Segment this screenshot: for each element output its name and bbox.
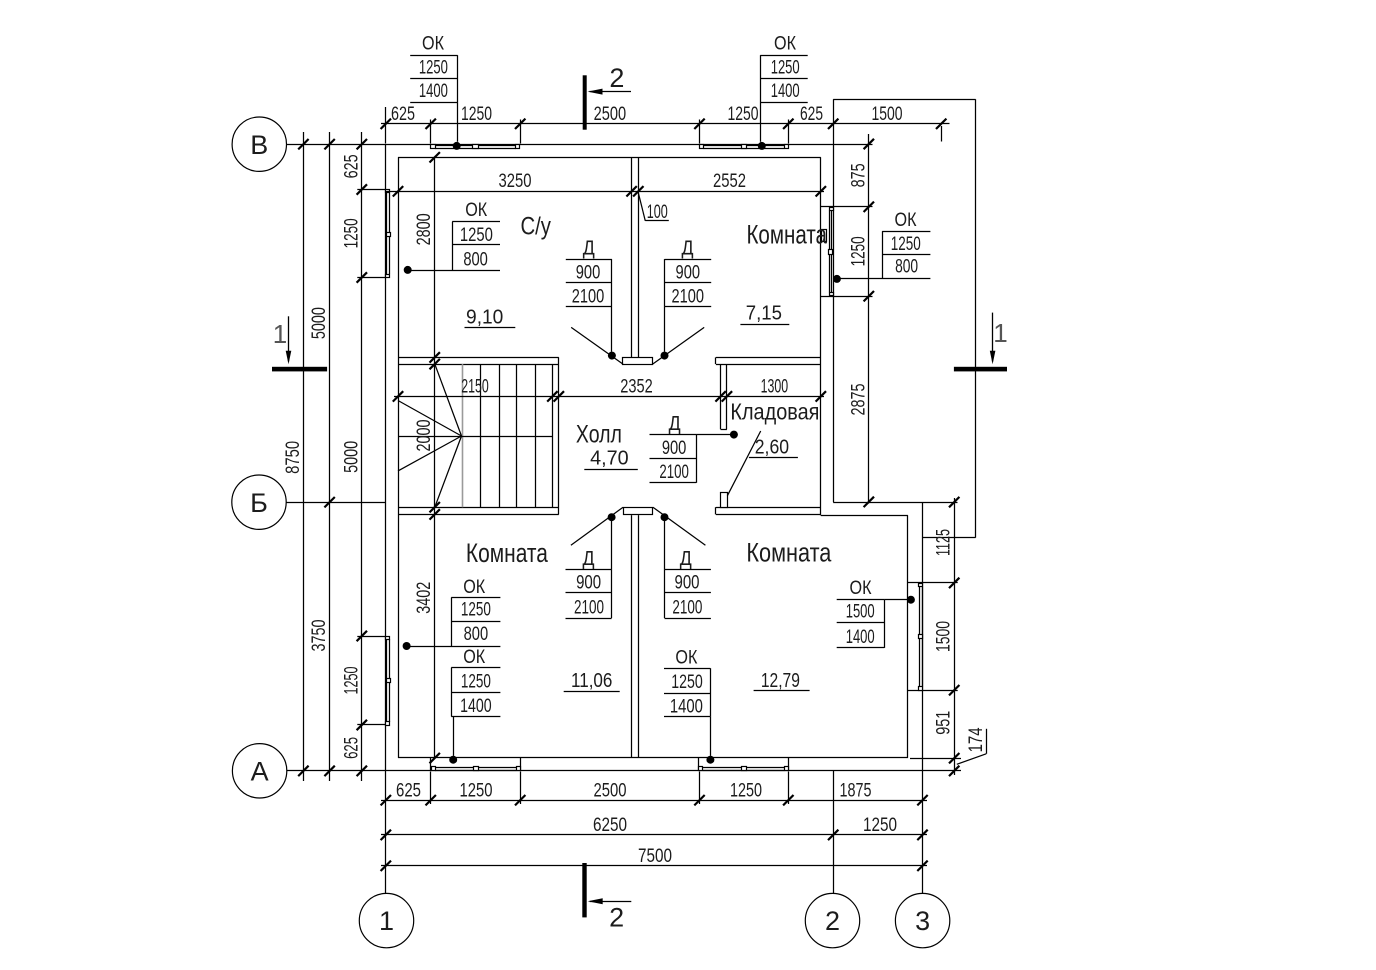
top exterior wall inner face — [398, 157, 821, 159]
right dimension line 1125 1500 951 174 — [954, 498, 956, 775]
window right-lower reference dot — [907, 596, 915, 604]
window table top-left ОК 1250 1400 — [410, 55, 457, 57]
svg-text:3250: 3250 — [499, 171, 532, 192]
stair flight divider horizontal — [398, 436, 552, 438]
svg-text:900: 900 — [662, 438, 687, 459]
left window extension lines — [357, 189, 385, 191]
axis circle 3 — [895, 893, 949, 947]
window table top-right ОК 1250 1400 — [760, 55, 807, 57]
svg-text:9,10: 9,10 — [466, 306, 503, 329]
door hinge dots top — [608, 352, 616, 360]
svg-text:1500: 1500 — [872, 104, 903, 125]
right extension lines lower — [923, 582, 958, 584]
bottom exterior wall outer face — [385, 770, 922, 772]
window bottom-left reference dot — [449, 756, 457, 764]
svg-text:2100: 2100 — [574, 597, 604, 618]
svg-text:1400: 1400 — [771, 81, 800, 102]
svg-text:ОК: ОК — [850, 578, 872, 599]
svg-text:2100: 2100 — [572, 287, 605, 308]
hall south wall band storeroom side — [716, 507, 821, 509]
window bottom-left glazing — [435, 767, 516, 769]
svg-text:2500: 2500 — [594, 780, 627, 801]
section mark 2 bottom arrow — [590, 901, 632, 903]
axis circle 2 — [805, 893, 859, 947]
window top-left jamb blocks — [431, 145, 436, 149]
svg-text:1250: 1250 — [461, 104, 492, 125]
window table right-lower ОК 1500 1400 — [837, 599, 885, 601]
svg-text:ОК: ОК — [422, 33, 444, 54]
svg-text:1: 1 — [273, 319, 287, 349]
window bottom-right mullion — [742, 767, 747, 771]
stair tread lines — [480, 364, 482, 507]
svg-text:1500: 1500 — [846, 602, 875, 623]
door threshold bottom — [624, 508, 653, 515]
svg-text:1250: 1250 — [728, 104, 759, 125]
dimension line top row — [381, 123, 950, 125]
window left-upper jamb blocks — [386, 190, 390, 193]
window right-upper bottom edge — [821, 296, 833, 298]
door threshold top — [623, 358, 653, 365]
svg-text:800: 800 — [463, 249, 488, 270]
window bottom-right jamb verticals — [698, 758, 700, 771]
axis circle В — [232, 117, 286, 171]
hall north wall band storeroom side — [716, 357, 821, 359]
svg-text:5000: 5000 — [341, 441, 362, 473]
terrace outline right — [975, 99, 977, 537]
terrace outline top — [833, 99, 975, 101]
window bottom-right jamb blocks — [699, 767, 703, 771]
bottom exterior wall inner face — [398, 757, 908, 759]
svg-text:1400: 1400 — [460, 696, 492, 717]
window bottom-right glazing — [703, 767, 784, 769]
svg-text:А: А — [251, 756, 269, 786]
window bottom-left jamb blocks — [432, 767, 436, 771]
left exterior wall inner face — [398, 157, 400, 758]
dimension line 2150 2352 1300 — [394, 396, 824, 398]
window top-right glazing — [704, 145, 785, 147]
window table bottom-centre ОК 1250 1400 — [664, 668, 710, 670]
window bottom-left jamb verticals — [430, 758, 432, 771]
interior dimension line 2800 2000 3402 — [434, 157, 436, 758]
svg-text:Д: Д — [669, 413, 681, 435]
svg-text:7500: 7500 — [638, 846, 672, 867]
svg-text:Комната: Комната — [746, 220, 827, 250]
left dimension line segments — [361, 132, 363, 781]
dimension line 3250 2552 — [385, 191, 824, 193]
svg-text:12,79: 12,79 — [761, 669, 800, 692]
svg-text:Б: Б — [250, 488, 268, 518]
door dot storeroom — [730, 431, 738, 439]
svg-text:5000: 5000 — [309, 307, 330, 339]
window left-lower reference dot — [403, 642, 411, 650]
section mark 1 right arrow — [992, 313, 994, 362]
window right-lower bottom edge — [908, 690, 923, 692]
right upper exterior wall inner face — [820, 157, 822, 515]
svg-text:1125: 1125 — [934, 529, 955, 556]
svg-text:1250: 1250 — [341, 218, 362, 248]
step wall inner face — [821, 515, 908, 517]
svg-text:1400: 1400 — [846, 627, 875, 648]
door leaf top-left room — [571, 327, 623, 364]
svg-text:1400: 1400 — [670, 697, 703, 718]
label 100 partition leader — [639, 194, 646, 221]
svg-text:Комната: Комната — [466, 538, 549, 568]
axis line А — [287, 770, 386, 772]
door table bottom-right Д 900 2100 — [665, 569, 711, 571]
svg-text:ОК: ОК — [465, 200, 487, 221]
terrace outline left — [833, 99, 835, 144]
window table bottom-left upper ОК 1250 800 — [451, 597, 500, 599]
hall north wall band stair side — [398, 357, 559, 359]
svg-text:1250: 1250 — [730, 780, 762, 801]
svg-text:4,70: 4,70 — [590, 446, 629, 469]
svg-text:1250: 1250 — [460, 780, 493, 801]
bottom dimension row 2 — [381, 834, 927, 836]
axis line В — [287, 144, 386, 146]
svg-text:174: 174 — [966, 727, 987, 752]
window right-upper glazing — [829, 211, 831, 293]
left exterior wall outer face — [385, 144, 387, 771]
svg-text:800: 800 — [464, 624, 489, 645]
svg-text:3: 3 — [915, 906, 930, 936]
svg-text:2800: 2800 — [414, 213, 435, 245]
window top-left glazing — [435, 145, 515, 147]
axis circle А — [232, 744, 286, 798]
window right-upper top edge — [821, 206, 833, 208]
svg-text:800: 800 — [895, 257, 918, 278]
bottom extension lines row1 — [430, 772, 432, 805]
svg-text:1250: 1250 — [671, 672, 703, 693]
svg-text:2,60: 2,60 — [755, 436, 789, 459]
svg-text:625: 625 — [396, 780, 421, 801]
bottom dimension row 1 — [381, 800, 927, 802]
axis circle 1 — [359, 893, 413, 947]
door leaf bottom-right room — [653, 507, 706, 545]
svg-text:1400: 1400 — [419, 81, 448, 102]
axis line 3 bottom — [922, 771, 924, 893]
svg-text:900: 900 — [576, 573, 601, 594]
window left-lower jamb blocks — [386, 637, 390, 640]
door table top-left Д 900 2100 — [566, 259, 612, 261]
window table bottom-left lower ОК 1250 1400 — [451, 667, 500, 669]
svg-text:1250: 1250 — [891, 234, 921, 255]
window left-lower glazing — [386, 639, 388, 722]
window right-lower glazing — [919, 587, 921, 686]
svg-text:1250: 1250 — [419, 58, 448, 79]
window top-right reference dot — [758, 142, 766, 150]
window right-upper reference dot — [833, 275, 841, 283]
svg-text:ОК: ОК — [463, 647, 485, 668]
svg-text:1250: 1250 — [461, 600, 491, 621]
svg-text:2: 2 — [825, 906, 840, 936]
right dimension line 875 1250 2875 — [868, 134, 870, 504]
partition upper centre — [631, 157, 633, 357]
svg-text:875: 875 — [848, 163, 869, 187]
svg-text:ОК: ОК — [895, 210, 917, 231]
svg-text:С/у: С/у — [520, 212, 551, 240]
window right-upper jamb blocks — [830, 208, 834, 211]
door table bottom-left Д 900 2100 — [566, 569, 612, 571]
window top-right jamb blocks — [700, 145, 704, 149]
section mark 1 right bar — [954, 367, 1007, 372]
label 174 underline and leader — [986, 729, 988, 754]
svg-text:1250: 1250 — [460, 225, 493, 246]
svg-text:1250: 1250 — [863, 815, 897, 836]
stair enclosure partition — [552, 364, 554, 507]
dimension extension lines top windows — [430, 120, 432, 144]
door table top-right Д 900 2100 — [665, 259, 712, 261]
window left-upper reference dot — [404, 266, 412, 274]
svg-text:2: 2 — [609, 903, 624, 933]
window left-upper mullion — [387, 233, 391, 237]
svg-text:Д: Д — [583, 548, 595, 570]
svg-text:3750: 3750 — [309, 620, 330, 652]
axis line 1 bottom — [385, 771, 387, 894]
door table storeroom Д 900 2100 — [650, 434, 697, 436]
partition lower centre — [631, 515, 633, 758]
svg-text:8750: 8750 — [283, 441, 304, 474]
svg-text:Кладовая: Кладовая — [730, 399, 819, 425]
top exterior wall outer face — [385, 144, 833, 146]
svg-text:3402: 3402 — [414, 582, 435, 614]
svg-text:2552: 2552 — [713, 171, 746, 192]
left dimension line 5000 3750 — [329, 132, 331, 781]
svg-text:951: 951 — [934, 711, 955, 735]
storeroom door jamb block — [721, 493, 728, 508]
svg-text:Д: Д — [682, 238, 694, 260]
svg-text:Д: Д — [583, 238, 595, 260]
right upper exterior wall outer face — [833, 144, 835, 502]
svg-text:2875: 2875 — [848, 384, 869, 416]
svg-text:1500: 1500 — [934, 621, 955, 652]
svg-text:1250: 1250 — [771, 58, 800, 79]
svg-text:2500: 2500 — [594, 104, 627, 125]
svg-text:2100: 2100 — [672, 287, 705, 308]
section mark 2 top bar — [583, 75, 587, 129]
right lower exterior wall inner face — [907, 515, 909, 758]
window right-lower jamb blocks — [919, 584, 923, 587]
svg-text:ОК: ОК — [463, 577, 485, 598]
section mark 2 bottom bar — [582, 863, 586, 917]
door hinge dots bottom — [608, 513, 616, 521]
svg-text:625: 625 — [800, 104, 823, 125]
window left-lower mullion — [387, 679, 391, 683]
window left-upper glazing — [386, 193, 388, 274]
window top-left mullion — [473, 145, 479, 149]
stair winder rays — [435, 364, 462, 436]
section mark 1 left arrow — [288, 316, 290, 361]
svg-text:1: 1 — [379, 906, 394, 936]
svg-text:ОК: ОК — [675, 647, 697, 668]
svg-text:1300: 1300 — [761, 377, 789, 398]
section mark 2 top arrow — [590, 91, 632, 93]
window table С/у ОК 1250 800 — [452, 221, 500, 223]
left dimension line 8750 — [303, 132, 305, 781]
svg-text:1: 1 — [993, 318, 1007, 348]
svg-text:2150: 2150 — [461, 377, 489, 398]
window right-upper mullion — [829, 250, 833, 255]
svg-text:1875: 1875 — [840, 780, 872, 801]
svg-text:2: 2 — [609, 63, 624, 93]
storeroom partition west — [720, 364, 722, 429]
svg-text:11,06: 11,06 — [571, 669, 612, 692]
axis line 2 bottom — [833, 771, 835, 893]
svg-text:2100: 2100 — [659, 462, 689, 483]
terrace outline bottom — [923, 537, 976, 539]
svg-text:1250: 1250 — [461, 672, 491, 693]
window top-right mullion — [742, 145, 747, 149]
axis line Б — [286, 502, 385, 504]
svg-text:625: 625 — [391, 104, 415, 125]
svg-text:2100: 2100 — [672, 597, 702, 618]
svg-text:625: 625 — [341, 154, 362, 178]
svg-text:1250: 1250 — [341, 667, 362, 695]
svg-text:ОК: ОК — [774, 33, 796, 54]
bottom dimension row 3 — [381, 865, 927, 867]
window right-upper sill tab — [822, 230, 827, 242]
window bottom-left mullion — [474, 767, 479, 771]
right lower exterior wall outer face — [922, 502, 924, 771]
svg-text:1250: 1250 — [848, 236, 869, 266]
hall south wall band stair side — [398, 507, 559, 509]
axis line 1 top extension — [385, 107, 387, 144]
svg-text:Комната: Комната — [746, 538, 832, 568]
stair walking line grey — [462, 364, 464, 507]
svg-text:100: 100 — [647, 202, 668, 223]
svg-text:2352: 2352 — [620, 377, 653, 398]
axis circle Б — [232, 475, 286, 529]
svg-text:900: 900 — [576, 263, 601, 284]
window top-left reference dot — [453, 142, 461, 150]
section mark 1 left bar — [272, 367, 327, 372]
svg-text:Холл: Холл — [576, 421, 622, 449]
svg-text:900: 900 — [676, 263, 701, 284]
door leaf bottom-left room — [571, 507, 623, 545]
svg-text:Д: Д — [680, 548, 692, 570]
svg-text:6250: 6250 — [593, 815, 627, 836]
svg-text:900: 900 — [675, 573, 700, 594]
svg-text:7,15: 7,15 — [746, 302, 782, 325]
right extension lines upper — [833, 144, 872, 146]
window bottom-right reference dot — [706, 756, 714, 764]
window right-lower top edge — [908, 582, 923, 584]
window right-lower mullion — [919, 635, 923, 639]
step wall outer face with extension — [833, 502, 957, 504]
window table right-upper ОК 1250 800 — [882, 231, 930, 233]
door leaf storeroom — [727, 431, 760, 496]
dimension extension 1500 — [941, 126, 943, 142]
svg-text:2000: 2000 — [414, 420, 435, 452]
svg-text:625: 625 — [341, 737, 362, 759]
svg-text:В: В — [250, 130, 268, 160]
door leaf top-right room — [653, 327, 705, 364]
